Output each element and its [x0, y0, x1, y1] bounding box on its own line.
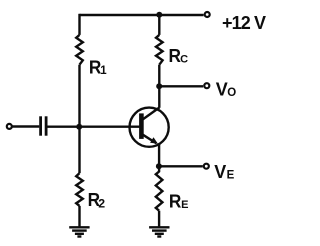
wire right branch upper stub — [158, 14, 160, 35]
transistor Q1 circle — [130, 108, 169, 147]
label Ve — [214, 161, 234, 182]
svg-text:1: 1 — [100, 65, 107, 77]
terminal +12V — [205, 12, 210, 17]
ground under R2 — [69, 227, 89, 236]
wire emitter to emitter node — [158, 144, 160, 166]
resistor R2 — [76, 173, 83, 206]
transistor Q1 emitter lead — [143, 135, 157, 144]
resistor RC — [156, 35, 163, 65]
svg-text:V: V — [214, 161, 227, 182]
junction node base — [76, 124, 82, 130]
transistor Q1 emitter arrow — [150, 137, 158, 144]
ground under RE — [149, 227, 169, 236]
junction node Ve — [156, 163, 162, 169]
capacitor C1 right plate — [45, 116, 48, 135]
wire R2 to ground — [78, 206, 80, 227]
wire left branch upper stub — [78, 14, 80, 35]
capacitor C1 left plate — [39, 116, 42, 135]
wire Vo node to terminal — [159, 85, 203, 87]
wire base node to transistor base — [80, 125, 140, 127]
svg-text:2: 2 — [98, 197, 105, 211]
svg-text:+12 V: +12 V — [222, 13, 266, 33]
wire top supply rail — [80, 14, 204, 16]
junction node Vo — [156, 83, 162, 89]
svg-text:E: E — [181, 199, 188, 211]
transistor Q1 base bar — [139, 113, 144, 138]
svg-text:O: O — [227, 87, 236, 99]
transistor Q1 collector lead — [143, 108, 160, 120]
svg-text:R: R — [169, 191, 182, 212]
resistor RE — [156, 166, 163, 210]
label RE — [169, 191, 189, 212]
label Vo — [216, 78, 236, 99]
resistor R1 — [76, 35, 83, 65]
wire RC to collector — [158, 65, 160, 108]
wire Ve node to terminal — [159, 165, 203, 167]
terminal input — [7, 124, 12, 129]
wire left branch middle — [78, 65, 80, 173]
label R1 — [89, 56, 107, 77]
wire input to capacitor — [12, 125, 39, 127]
wire capacitor to base node — [47, 125, 79, 127]
svg-text:E: E — [227, 169, 235, 181]
terminal Vo — [204, 83, 209, 88]
label RC — [169, 45, 189, 66]
junction node top rail — [156, 12, 162, 18]
terminal Ve — [204, 164, 209, 169]
label R2 — [88, 189, 106, 210]
svg-text:C: C — [180, 54, 188, 66]
wire RE to ground — [158, 211, 160, 228]
